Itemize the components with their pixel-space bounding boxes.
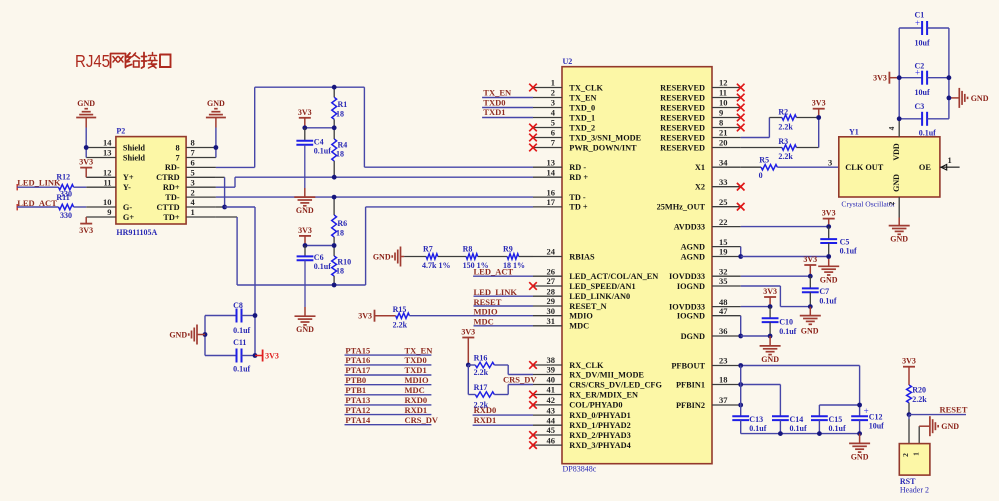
svg-text:GND: GND [373,253,391,262]
svg-text:0: 0 [759,171,763,180]
net stub PTA13 / RXD0 [345,395,432,405]
net label LED_ACT [17,198,58,210]
ground GND right of caps [949,88,989,108]
svg-text:TXD_1: TXD_1 [569,113,595,122]
resistor R17 2.2k [468,383,494,410]
svg-text:R2: R2 [778,107,788,116]
svg-text:10uf: 10uf [915,39,930,48]
U2 pin 2 TX_EN [533,88,597,103]
no-connect X U2 pin 46 [529,441,537,449]
capacitor C12 10uf polarized [851,406,884,431]
svg-text:VDD: VDD [892,143,901,161]
svg-text:42: 42 [547,395,556,405]
svg-text:RESET: RESET [940,405,968,415]
svg-text:TXD_3/SNI_MODE: TXD_3/SNI_MODE [569,133,641,142]
svg-text:29: 29 [547,296,556,306]
capacitor C11 0.1uf [205,338,255,374]
svg-text:PTA17: PTA17 [345,365,371,375]
P2 pin 5 CTRD [156,168,216,183]
U2 pin 44 RXD_1/PHYAD2 [533,415,631,430]
capacitor C13 0.1uf [732,415,766,433]
svg-text:R8: R8 [463,245,473,254]
svg-text:PTB1: PTB1 [345,385,366,395]
P2 pin 1 TD+ [163,207,216,222]
IC U2 DP83848c body [562,57,712,474]
svg-text:2.2k: 2.2k [393,321,408,330]
wire GND to P2 pins 14/13 [85,128,87,158]
net label RESET wire [909,405,968,415]
svg-text:C3: C3 [915,102,925,111]
svg-text:TX_EN: TX_EN [483,87,512,97]
svg-text:RX_CLK: RX_CLK [569,361,604,370]
no-connect X U2 pin 8 [737,124,745,132]
wire bottom rail C13-C12 [741,420,860,434]
svg-text:37: 37 [719,395,728,405]
svg-text:28: 28 [547,286,556,296]
svg-text:PTB0: PTB0 [345,375,366,385]
svg-text:PTA14: PTA14 [345,415,371,425]
svg-text:RD -: RD - [569,163,586,172]
svg-text:12: 12 [103,168,112,178]
net label RXD1 wire to U2 pin 44 [473,415,533,425]
svg-text:3V3: 3V3 [461,328,475,337]
wire R2 to 3V3 node [796,117,818,119]
junction 3V3 C6 node [303,243,308,248]
no-connect X U2 pin 27 [529,282,537,290]
no-connect X U2 pin 10 [737,104,745,112]
P2 pin 14 Shield [86,138,145,153]
power port 3V3 at R20 [902,357,916,385]
svg-text:5: 5 [551,118,555,128]
ground GND below C10 [760,336,781,364]
junction C3 left [897,116,902,121]
junction R2 3V3 [816,115,821,120]
power port 3V3 at P2 pin 12 [79,158,93,178]
U2 pin 39 RX_DV/MII_MODE [533,365,644,380]
wire DGND row to C10 bottom [741,335,770,337]
svg-text:7: 7 [175,153,179,162]
junction C11 right [253,353,258,358]
wire R3 right up to 3V3 node [796,118,818,148]
svg-text:RJ45: RJ45 [75,51,110,71]
svg-text:CRS/CRS_DV/LED_CFG: CRS/CRS_DV/LED_CFG [569,380,662,389]
U2 pin 35 IOGND [677,276,741,291]
junction R6/R10 mid [332,243,337,248]
U2 pin 13 RD - [533,157,586,172]
svg-text:R15: R15 [393,305,407,314]
svg-text:3: 3 [828,157,832,167]
svg-text:GND: GND [169,331,187,340]
svg-text:11: 11 [719,88,727,98]
svg-text:3V3: 3V3 [902,357,916,366]
svg-text:RD+: RD+ [163,183,180,192]
U2 pin 9 RESERVED [660,108,741,123]
wire PFBOUT pin23 row to C12 riser [741,365,860,367]
svg-text:C14: C14 [790,415,804,424]
power port GND shield left [76,99,96,128]
svg-text:RESERVED: RESERVED [660,143,705,152]
wire AGND row to C5 bottom and GND [741,257,829,267]
capacitor C8 0.1uf [205,301,255,335]
svg-text:R16: R16 [474,353,488,362]
ground GND at header [930,416,959,436]
U2 pin 26 LED_ACT/COL/AN_EN [533,266,658,281]
svg-text:C15: C15 [829,415,843,424]
wire GND to P2 pins 8/7 [215,128,217,158]
svg-text:C12: C12 [869,413,883,422]
svg-text:TXD_0: TXD_0 [569,103,595,112]
junction 3V3 C4 node [302,125,307,130]
U2 pin 47 IOGND [677,306,741,321]
svg-text:PFBIN2: PFBIN2 [676,401,705,410]
svg-text:3V3: 3V3 [803,255,817,264]
wire TD+ from P2 pin 1 routed below to U2 pin 17 [216,207,533,285]
P2 pin 3 RD+ [163,177,216,192]
power port 3V3 at P2 pin 9 [79,217,93,235]
capacitor C3 0.1uf [899,102,949,138]
U2 pin 41 RX_ER/MDIX_EN [533,385,638,400]
wire RD+ from P2 pin 3 jog up to U2 pin 14 [216,177,533,187]
svg-text:RXD1: RXD1 [474,415,497,425]
power port 3V3 at C4 [298,108,312,128]
svg-text:32: 32 [719,266,728,276]
capacitor C14 0.1uf [772,415,807,433]
no-connect X U2 pin 25 [737,203,745,211]
net label RXD0 wire to U2 pin 43 [473,405,533,415]
svg-text:6: 6 [551,128,555,138]
resistor R16 2.2k [468,353,494,377]
U2 pin 5 TXD_2 [533,118,595,133]
svg-text:RESET_N: RESET_N [569,302,606,311]
U2 pin 25 25MHz_OUT [657,197,741,212]
svg-text:22: 22 [719,217,728,227]
wire R16 jog down to U2 pin 39 [494,365,533,375]
U2 pin 36 DGND [681,326,741,341]
power port 3V3 at R15 [358,310,395,322]
svg-text:TXD1: TXD1 [405,365,427,375]
P2 pin 4 CTTD [157,197,216,212]
svg-text:0.1uf: 0.1uf [749,424,766,433]
svg-text:TXD0: TXD0 [405,355,427,365]
svg-text:RESERVED: RESERVED [660,123,705,132]
svg-text:RESERVED: RESERVED [660,93,705,102]
svg-text:R1: R1 [338,100,348,109]
P2 pin 2 TD- [165,187,216,202]
U2 pin 45 RXD_2/PHYAD3 [533,425,631,440]
svg-text:TXD_2: TXD_2 [569,123,595,132]
resistor R15 2.2k [393,305,410,329]
svg-text:R17: R17 [474,383,488,392]
svg-text:19: 19 [719,247,728,257]
svg-text:RXD_0/PHYAD1: RXD_0/PHYAD1 [569,411,630,420]
svg-text:+: + [915,18,920,28]
U2 pin 8 RESERVED [660,118,741,133]
U2 pin 42 COL/PHYAD0 [533,395,622,410]
svg-text:25MHz_OUT: 25MHz_OUT [657,203,706,212]
svg-text:20: 20 [719,138,728,148]
svg-text:R7: R7 [423,245,433,254]
svg-text:LED_LINK/AN0: LED_LINK/AN0 [569,292,630,301]
U2 pin 19 AGND [681,247,741,262]
wire R17 jog up to U2 pin 40 CRS_DV [494,374,537,394]
svg-text:2.2k: 2.2k [778,123,793,132]
resistor R9 18 1% [478,245,533,270]
net stub PTB1 / MDC [345,385,432,395]
svg-text:2.2k: 2.2k [778,152,793,161]
svg-text:IOGND: IOGND [677,282,705,291]
svg-text:TXD0: TXD0 [483,97,505,107]
svg-text:26: 26 [547,266,556,276]
svg-text:GND: GND [207,99,225,108]
U2 pin 30 MDIO [533,306,593,321]
net stub PTA14 / CRS_DV [345,415,439,425]
capacitor C4 0.1uf [296,128,331,197]
U2 pin 10 RESERVED [660,98,741,113]
no-connect X U2 pin 5 [529,124,537,132]
no-connect X U2 pin 33 [737,183,745,191]
svg-text:PWR_DOWN/INT: PWR_DOWN/INT [569,143,637,152]
svg-text:35: 35 [719,276,728,286]
U2 pin 40 CRS/CRS_DV/LED_CFG [533,375,663,390]
U2 pin 3 TXD_0 [533,98,595,113]
wire C8/C11 left rail [204,316,206,356]
svg-text:GND: GND [890,235,908,244]
wire PFBIN1 pin18 to C14 riser [741,385,781,417]
junction PFBIN2 [738,403,743,408]
svg-text:8: 8 [719,118,723,128]
svg-text:LED_LINK: LED_LINK [17,178,61,188]
svg-text:27: 27 [547,276,556,286]
svg-text:C8: C8 [233,301,243,310]
svg-text:3V3: 3V3 [822,209,836,218]
resistor R10 18 [332,246,351,286]
svg-text:PTA13: PTA13 [345,395,370,405]
power port 3V3 at R2/R3 [812,99,826,118]
resistor R6 18 [332,197,347,245]
svg-text:RXD1: RXD1 [405,405,428,415]
wire U2 pin 35 IOGND routed to C7 bottom [741,286,811,307]
ground GND below C5 [818,266,839,284]
svg-text:PTA16: PTA16 [345,355,370,365]
junction C12 top [857,403,862,408]
U2 pin 28 LED_LINK/AN0 [533,286,630,301]
connector RST Header 2 body [899,444,930,495]
U2 pin 20 RESERVED [660,138,741,153]
svg-text:3V3: 3V3 [79,158,93,167]
net label TXD1 with wire to U2 pin 4 [482,107,533,117]
svg-text:COL/PHYAD0: COL/PHYAD0 [569,401,622,410]
svg-text:0.1uf: 0.1uf [233,365,250,374]
svg-text:18: 18 [336,229,344,238]
junction IOVDD33 pin32 node [808,274,813,279]
no-connect X U2 pin 42 [529,401,537,409]
svg-text:HR911105A: HR911105A [116,228,157,237]
oscillator Y1 Crystal Oscillator body [839,128,940,209]
resistor R5 0 [759,156,778,181]
svg-text:34: 34 [719,157,728,167]
svg-text:Y-: Y- [123,183,131,192]
junction R20 RESET node [907,412,912,417]
wire U2 pin 47 jog down to DGND row [740,316,742,336]
no-connect X U2 pin 45 [529,431,537,439]
junction IOVDD33 pin48 node [768,304,773,309]
wire 3V3/C4 node to R1/R4 junction [305,127,334,129]
svg-text:CTTD: CTTD [157,203,180,212]
svg-text:RESERVED: RESERVED [660,83,705,92]
U2 pin 46 RXD_3/PHYAD4 [533,435,631,450]
net label TXD0 with wire to U2 pin 3 [482,97,533,107]
svg-text:PFBIN1: PFBIN1 [676,380,705,389]
svg-text:TX_EN: TX_EN [405,345,434,355]
junction DGND row pin47 [738,334,743,339]
wire U2 pin 15 jog down to pin 19 row [740,247,742,257]
svg-text:0.1uf: 0.1uf [840,247,857,256]
net label LED_ACT wire to U2 pin 26 [473,267,533,277]
no-connect X U2 pin 6 [529,134,537,142]
svg-text:2.2k: 2.2k [912,395,927,404]
wire CTRD P2 pin 5 down to CTTD row [216,177,225,207]
svg-text:21: 21 [719,128,728,138]
ground GND below C7 [800,307,821,336]
resistor R11 330 [56,193,73,220]
U2 pin 43 RXD_0/PHYAD1 [533,405,631,420]
svg-text:0.1uf: 0.1uf [790,424,807,433]
svg-text:GND: GND [851,452,869,461]
capacitor C15 0.1uf [811,415,846,433]
svg-text:16: 16 [547,187,556,197]
svg-text:PTA12: PTA12 [345,405,370,415]
svg-text:4: 4 [887,126,896,130]
svg-text:1: 1 [912,452,921,456]
wire center-tap to C8/C11 [225,207,255,356]
svg-text:2: 2 [551,88,555,98]
svg-text:PTA15: PTA15 [345,345,370,355]
svg-text:C11: C11 [233,338,246,347]
svg-text:G-: G- [123,203,132,212]
svg-text:PFBOUT: PFBOUT [671,361,705,370]
resistor R7 4.7k 1% [404,245,450,270]
svg-text:3: 3 [191,177,195,187]
net label MDIO wire to U2 pin 30 [409,307,533,317]
svg-text:MDIO: MDIO [569,312,593,321]
svg-text:9: 9 [107,207,111,217]
no-connect X U2 pin 9 [737,114,745,122]
junction C10 bottom [768,334,773,339]
svg-text:RESERVED: RESERVED [660,113,705,122]
U2 pin 21 RESERVED [660,128,741,143]
svg-text:6: 6 [191,158,195,168]
P2 pin 9 G+ [86,207,134,222]
U2 pin 6 TXD_3/SNI_MODE [533,128,642,143]
wire 3V3/C6 node to R6/R10 junction [305,245,334,247]
net label LED_LINK [17,178,61,191]
U2 pin 14 RD + [533,167,588,182]
wire RD- from P2 pin 6 up and over to U2 pin 13 [216,87,533,167]
svg-text:3V3: 3V3 [79,226,93,235]
U2 pin 33 X2 [695,177,741,192]
wire U2 pin 21 jog up to R2 [741,118,782,138]
ground GND below C12 [849,434,870,462]
wire U2 pin 34 to R5 [741,166,761,168]
svg-text:23: 23 [719,356,728,366]
resistor R4 18 [332,128,347,177]
Y1 pin 4 VDD [887,119,901,161]
net label RESET wire to U2 pin 29 [474,297,534,307]
U2 pin 4 TXD_1 [533,108,595,123]
junction C5 bottom [826,254,831,259]
svg-text:10uf: 10uf [915,88,930,97]
svg-text:3V3: 3V3 [298,108,312,117]
ground GND below C4 [294,197,315,215]
svg-text:R3: R3 [778,137,788,146]
U2 pin 15 AGND [681,237,741,252]
svg-text:0.1uf: 0.1uf [919,129,936,138]
svg-text:10: 10 [103,197,112,207]
U2 pin 22 AVDD33 [674,217,741,232]
svg-text:38: 38 [547,355,556,365]
wire U2 pin 32 to 3V3/C7 [741,275,811,277]
connector P2 HR911105A body [116,127,186,237]
net label TX_EN with wire to U2 pin 2 [482,87,533,97]
junction 3V3 R16 [466,363,471,368]
svg-text:GND: GND [941,422,959,431]
svg-text:C13: C13 [749,415,763,424]
svg-text:GND: GND [77,99,95,108]
U2 pin 27 LED_SPEED/AN1 [533,276,636,291]
junction CTRD/CTTD [222,205,227,210]
junction at P2 pin 14 [84,145,89,150]
svg-text:1: 1 [948,155,952,165]
svg-text:0.1uf: 0.1uf [819,297,836,306]
svg-text:3: 3 [551,98,555,108]
svg-text:AGND: AGND [681,242,705,251]
svg-text:RXD_3/PHYAD4: RXD_3/PHYAD4 [569,441,630,450]
svg-text:R9: R9 [503,245,513,254]
resistor R8 150 1% [438,245,489,270]
wire R11 to P2 pin 10 [74,206,87,208]
net label LED_LINK wire to U2 pin 28 [474,287,534,297]
svg-text:OE: OE [919,163,931,172]
net stub PTA15 / TX_EN [345,345,434,355]
net stub PTB0 / MDIO [345,375,432,385]
svg-text:C7: C7 [819,287,829,296]
svg-text:330: 330 [60,211,72,220]
svg-text:IOVDD33: IOVDD33 [669,302,705,311]
P2 pin 10 G- [86,197,132,212]
svg-text:DP83848c: DP83848c [563,465,597,474]
junction C2 left [897,75,902,80]
svg-text:CTRD: CTRD [156,173,180,182]
capacitor C5 0.1uf [820,227,857,257]
resistor R2 2.2k [778,107,796,131]
wire R12 to P2 pin 11 [74,186,87,188]
svg-text:3V3: 3V3 [358,312,372,321]
U2 pin 24 RBIAS [533,247,595,262]
svg-text:MDC: MDC [405,385,425,395]
svg-text:36: 36 [719,326,728,336]
svg-text:MDC: MDC [569,322,589,331]
Y1 pin 1 OE [919,155,960,172]
svg-text:GND: GND [892,174,901,192]
svg-text:25: 25 [719,197,728,207]
svg-text:30: 30 [547,306,556,316]
svg-text:RX_ER/MDIX_EN: RX_ER/MDIX_EN [569,390,638,399]
svg-text:C6: C6 [314,253,324,262]
svg-text:41: 41 [547,385,556,395]
junction R1 top [332,85,337,90]
ground GND at C8/C11 [169,325,205,345]
svg-text:TD-: TD- [165,193,180,202]
